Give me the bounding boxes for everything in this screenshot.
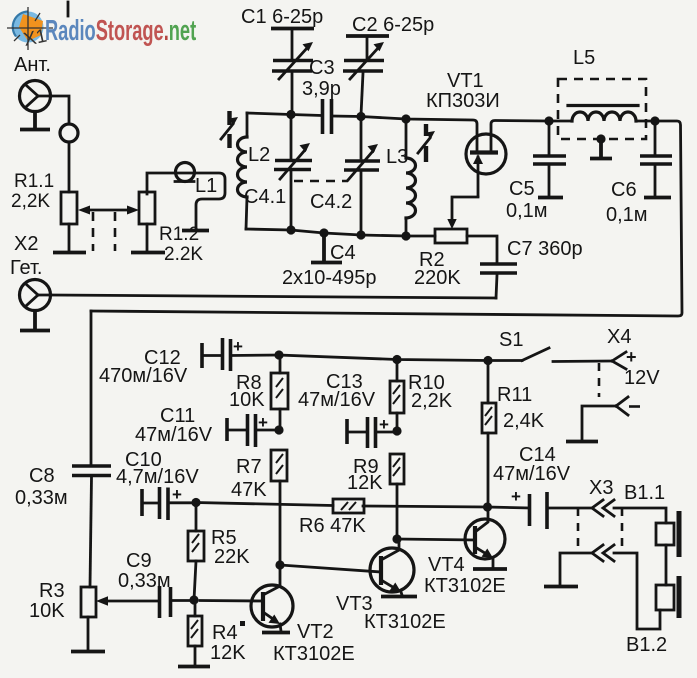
ground (VT4 emitter) bbox=[473, 567, 507, 571]
inductor L5 bbox=[572, 112, 636, 121]
speaker B1.1 bbox=[656, 523, 674, 545]
node bus-C1 bbox=[286, 110, 295, 119]
svg-text:47K: 47K bbox=[231, 479, 267, 501]
svg-text:47м/16V: 47м/16V bbox=[298, 389, 376, 411]
terminal bar C1 bbox=[271, 27, 314, 31]
capacitor block C4 stub bbox=[311, 233, 342, 263]
ground (VT2 emitter) bbox=[262, 631, 290, 635]
connector X3 lower bbox=[592, 545, 614, 561]
variable capacitor C4.2 bbox=[344, 117, 380, 236]
node rail-R10 bbox=[392, 355, 401, 364]
variable capacitor C4.1 bbox=[274, 115, 312, 231]
inductor L2 bbox=[238, 113, 248, 229]
node bottom-C4.1 bbox=[286, 225, 295, 234]
svg-text:L3: L3 bbox=[386, 146, 408, 168]
node R8-C11-R7 bbox=[274, 425, 283, 434]
resistor R4 bbox=[194, 600, 197, 616]
svg-text:10K: 10K bbox=[29, 600, 65, 622]
connector X2 jack (Гет) bbox=[20, 280, 52, 311]
wire +12V rail bbox=[279, 355, 522, 361]
ground (C6) bbox=[644, 196, 671, 200]
svg-text:C6: C6 bbox=[611, 179, 637, 201]
node VT2 collector bbox=[275, 560, 284, 569]
connector X1 jack (Ант) bbox=[20, 81, 52, 112]
gang dashed link C4.1-C4.2 bbox=[294, 180, 348, 183]
svg-text:22K: 22K bbox=[214, 546, 250, 568]
wire R1.2 to ground bbox=[146, 224, 149, 251]
svg-text:3,9p: 3,9p bbox=[302, 78, 341, 100]
svg-text:2,2K: 2,2K bbox=[411, 390, 453, 412]
svg-text:VT2: VT2 bbox=[297, 621, 334, 643]
resistor R8 bbox=[279, 355, 282, 373]
svg-text:C8: C8 bbox=[29, 465, 55, 487]
tuning slug L3 bbox=[418, 124, 435, 162]
svg-text:C2 6-25p: C2 6-25p bbox=[352, 14, 434, 36]
ground (VT3 emitter) bbox=[381, 595, 417, 599]
resistor R11 bbox=[487, 361, 490, 404]
wire VT2 collector to VT3 base bbox=[280, 565, 381, 572]
node bus-C6 bbox=[650, 116, 659, 125]
svg-text:X2: X2 bbox=[14, 233, 38, 255]
svg-text:RadioStorage.net: RadioStorage.net bbox=[45, 15, 196, 47]
svg-text:0,1м: 0,1м bbox=[506, 200, 548, 222]
svg-text:КТ3102Е: КТ3102Е bbox=[273, 643, 355, 665]
svg-text:+: + bbox=[626, 347, 637, 367]
resistor R6 bbox=[333, 499, 364, 513]
resistor R7 bbox=[271, 450, 287, 481]
svg-text:C5: C5 bbox=[509, 178, 535, 200]
coupling loop L1 wire bbox=[147, 173, 225, 229]
ground (R3) bbox=[71, 650, 105, 654]
ground (X4) bbox=[566, 440, 598, 444]
svg-text:R1.1: R1.1 bbox=[14, 171, 54, 192]
wire plug to R1.1 bbox=[68, 142, 71, 192]
capacitor C13 bbox=[347, 415, 397, 448]
capacitor C8 bbox=[72, 466, 111, 476]
wire top bus bbox=[247, 113, 477, 152]
svg-text:2x10-495p: 2x10-495p bbox=[282, 267, 377, 289]
svg-text:VT4: VT4 bbox=[428, 554, 465, 576]
resistor R10 bbox=[396, 360, 399, 382]
svg-text:C3: C3 bbox=[309, 57, 335, 79]
node bottom-L3-R2 bbox=[401, 231, 410, 240]
svg-text:B1.2: B1.2 bbox=[626, 634, 667, 656]
svg-text:X3: X3 bbox=[589, 477, 613, 499]
wire R2 to C7 bbox=[467, 236, 497, 262]
wire X3 lower to B1.2 bbox=[614, 553, 660, 629]
shield box L5 bbox=[558, 79, 646, 139]
svg-text:КТ3102Е: КТ3102Е bbox=[364, 611, 446, 633]
svg-text:B1.1: B1.1 bbox=[624, 482, 665, 504]
node rail-R11 bbox=[483, 356, 492, 365]
ground (L5 shield) bbox=[590, 139, 612, 159]
wire X4 minus to ground bbox=[582, 406, 616, 440]
svg-text:0,33м: 0,33м bbox=[15, 487, 68, 509]
wire Гет to C7 (heterodyne line) bbox=[51, 295, 496, 298]
node R9-VT3-VT4 bbox=[392, 534, 401, 543]
wire B1.1 to B1.2 bbox=[665, 545, 668, 585]
svg-text:0,1м: 0,1м bbox=[606, 204, 648, 226]
wire R6 line bbox=[196, 503, 487, 508]
node bottom-C4.2 bbox=[356, 230, 365, 239]
node R10-C13-R9 bbox=[392, 426, 401, 435]
node rail-C12-R8 bbox=[274, 350, 283, 359]
potentiometer R3 bbox=[81, 587, 96, 617]
node C10-R5-R6 bbox=[191, 498, 200, 507]
svg-text:C1 6-25p: C1 6-25p bbox=[241, 6, 323, 28]
svg-text:+: + bbox=[233, 337, 243, 356]
trimmer capacitor C2 bbox=[343, 38, 384, 116]
node bus-C2 bbox=[356, 112, 365, 121]
node bus-C5 bbox=[544, 116, 553, 125]
node C9-R5-R4-VT2 bbox=[189, 595, 198, 604]
capacitor C10 bbox=[142, 485, 196, 520]
svg-text:C4.2: C4.2 bbox=[310, 191, 352, 213]
svg-text:+: + bbox=[511, 487, 521, 506]
wire L3 node to R2 bbox=[406, 235, 435, 238]
connector X3 upper bbox=[592, 500, 614, 516]
capacitor C14 bbox=[488, 487, 591, 529]
wire bottom bus of tank bbox=[246, 229, 406, 236]
svg-text:R3: R3 bbox=[39, 580, 65, 602]
svg-text:R1.2: R1.2 bbox=[159, 224, 199, 245]
resistor R1.2 bbox=[139, 192, 155, 224]
svg-text:470м/16V: 470м/16V bbox=[99, 365, 188, 387]
speaker B1.2 bbox=[656, 585, 674, 610]
wire antenna top stub bbox=[67, 2, 70, 16]
svg-text:12V: 12V bbox=[624, 367, 660, 389]
node bottom-C4 bbox=[319, 228, 328, 237]
svg-text:0,33м: 0,33м bbox=[118, 570, 171, 592]
wire X3 to B1.1 bbox=[614, 508, 666, 523]
ground (Гет) bbox=[20, 311, 50, 331]
capacitor C3 bbox=[323, 99, 332, 134]
svg-text:L1: L1 bbox=[195, 175, 217, 197]
wire output right edge down to AF line bbox=[91, 121, 682, 316]
svg-text:X4: X4 bbox=[607, 326, 631, 348]
ground (R1.2) bbox=[131, 251, 165, 255]
svg-text:47м/16V: 47м/16V bbox=[135, 424, 213, 446]
capacitor C7 bbox=[480, 264, 517, 273]
wire VT1 source to R2 wiper bbox=[452, 197, 478, 220]
svg-text:C4: C4 bbox=[330, 242, 356, 264]
svg-text:КП303И: КП303И bbox=[426, 90, 500, 112]
connector X4 minus bbox=[616, 397, 628, 415]
svg-text:C7 360p: C7 360p bbox=[507, 238, 583, 260]
svg-text:VT1: VT1 bbox=[447, 70, 484, 92]
svg-text:R7: R7 bbox=[236, 456, 262, 478]
svg-text:12K: 12K bbox=[210, 642, 246, 664]
dashed link X4 bbox=[598, 363, 601, 397]
trimmer capacitor C1 bbox=[272, 30, 313, 113]
svg-text:R6 47K: R6 47K bbox=[299, 515, 366, 537]
switch S1 bbox=[522, 348, 549, 361]
wire bus VT1 drain to C5 bbox=[491, 121, 572, 153]
svg-text:S1: S1 bbox=[499, 329, 523, 351]
svg-text:47м/16V: 47м/16V bbox=[493, 463, 571, 485]
wiper arrow R3 bbox=[108, 600, 159, 603]
node R11-R6-C14-VT4 bbox=[483, 502, 492, 511]
capacitor C12 bbox=[202, 337, 279, 371]
svg-text:L5: L5 bbox=[573, 47, 595, 69]
wire Ант to small plug bbox=[51, 96, 69, 124]
svg-text:2,4K: 2,4K bbox=[503, 410, 545, 432]
svg-text:12K: 12K bbox=[347, 472, 383, 494]
svg-text:R4: R4 bbox=[212, 622, 238, 644]
ground (R1.1) bbox=[53, 251, 86, 255]
node L5 shield ground bbox=[596, 134, 605, 143]
connector plug on antenna wire bbox=[60, 124, 78, 142]
transistor VT4 bbox=[465, 507, 505, 567]
svg-text:L2: L2 bbox=[248, 144, 270, 166]
transistor VT1 bbox=[466, 134, 506, 196]
ground (X3) bbox=[544, 585, 578, 589]
capacitor C9 bbox=[160, 586, 171, 618]
svg-text:Гет.: Гет. bbox=[10, 257, 42, 279]
inductor L5 core bbox=[568, 104, 638, 107]
wire VT3 node to VT4 base bbox=[397, 539, 475, 540]
svg-text:220K: 220K bbox=[414, 267, 461, 289]
svg-text:C9: C9 bbox=[126, 550, 152, 572]
logo RadioStorage.net icon bbox=[7, 7, 53, 50]
wire R1.1 to ground bbox=[68, 224, 71, 251]
wire X3 lower to ground bbox=[560, 553, 592, 585]
wire AF corner down to C8 bbox=[90, 311, 93, 464]
svg-text:4,7м/16V: 4,7м/16V bbox=[116, 466, 199, 488]
ground (C5) bbox=[538, 196, 563, 200]
svg-text:C4.1: C4.1 bbox=[244, 186, 286, 208]
capacitor C6 bbox=[640, 121, 672, 196]
dashed link X3 bbox=[578, 508, 622, 553]
capacitor C5 bbox=[533, 121, 566, 196]
transistor VT2 bbox=[200, 565, 293, 631]
svg-text:КТ3102Е: КТ3102Е bbox=[424, 575, 506, 597]
resistor R1.1 bbox=[61, 192, 77, 224]
ground (L1) bbox=[182, 229, 209, 233]
svg-text:+: + bbox=[172, 485, 182, 504]
svg-text:10K: 10K bbox=[229, 389, 265, 411]
ground (R4) bbox=[178, 665, 210, 669]
gang dashed links bbox=[93, 212, 115, 251]
transistor VT3 bbox=[370, 539, 414, 595]
resistor R2 bbox=[435, 229, 467, 243]
svg-text:R11: R11 bbox=[497, 384, 532, 406]
svg-text:2.2K: 2.2K bbox=[164, 244, 203, 265]
connector X4 plus bbox=[612, 352, 626, 369]
capacitor C11 bbox=[227, 413, 279, 447]
resistor R5 bbox=[195, 502, 198, 531]
ground (Ант) bbox=[20, 112, 50, 130]
node bus-L3 bbox=[401, 114, 410, 123]
terminal bar C2 bbox=[346, 34, 389, 38]
connector circle on L1 bbox=[176, 163, 195, 182]
svg-text:2,2K: 2,2K bbox=[11, 191, 50, 212]
resistor R9 bbox=[390, 454, 404, 484]
gang arrow R1.1-R1.2 bbox=[78, 206, 139, 215]
inductor L3 bbox=[406, 119, 416, 236]
tuning slug L2 bbox=[221, 111, 238, 148]
svg-text:Ант.: Ант. bbox=[14, 54, 51, 76]
